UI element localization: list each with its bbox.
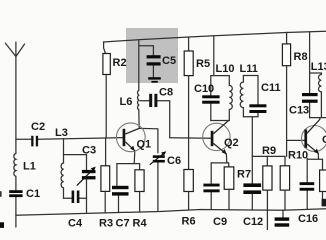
wire: C5 to ground symbol [152,66,154,78]
resistor R4 [135,170,144,192]
svg-text:C2: C2 [31,121,45,133]
resistor R9 [263,166,272,190]
wire: R8 top lead [286,32,288,44]
wire: C13 bottom lead [309,103,311,118]
wire: C10 lower lead [210,103,212,120]
wire: emitter to node [225,154,227,163]
svg-text:C12: C12 [243,216,263,228]
svg-text:R4: R4 [133,218,148,230]
svg-text:R5: R5 [196,58,210,70]
wire: tank2 descent to mid junction [251,117,253,157]
inductor L11 [240,76,243,117]
wire: Q1 emitter down [133,151,136,164]
wire: L13 bottom lead [320,92,322,118]
wire: C7 upper lead [116,164,118,187]
capacitor C11 [249,104,266,113]
wire: antenna node to C2 [16,138,31,140]
transistor Q3 [302,118,326,154]
svg-text:C8: C8 [159,87,173,99]
wire: R5 top lead [188,37,190,51]
capacitor below ground rail (cut) [275,217,290,226]
resistor R8 [282,44,290,66]
svg-text:R10: R10 [288,150,308,162]
wire: L3 tank top [64,154,87,156]
svg-text:R7: R7 [237,169,251,181]
svg-text:R8: R8 [294,51,308,63]
resistor R11 (cut at right edge) [320,170,326,192]
wire: C4 to right branch [79,197,87,199]
wire: C12 lower lead [251,193,253,210]
svg-text:Q2: Q2 [224,137,239,149]
wire: C13 node to Q3 collector [310,117,326,119]
svg-text:C9: C9 [213,216,227,228]
wire: tank1 bottom [211,120,230,122]
resistor R5 [184,51,193,76]
wire: R9 bottom lead through rail to bottom edge [266,190,268,230]
capacitor C12 [243,183,261,194]
wire: C16 upper lead [306,158,308,183]
inductor L6 [138,90,139,110]
wire: C5 branch stub [139,46,154,56]
svg-text:C10: C10 [194,83,214,95]
dark component blob at right edge above rail [322,199,326,207]
capacitor C16 [300,182,315,191]
svg-text:R2: R2 [113,57,127,69]
wire: C9 lower lead [210,192,212,209]
wire: R8 bottom down to Q3 base node [286,66,288,157]
wire: C11 lower lead [257,112,259,117]
wire: Q2 base wire [170,137,211,140]
svg-text:L1: L1 [23,161,36,173]
cut-off component at bottom-left edge [0,222,4,228]
wire: R2 bottom to base node [105,75,107,139]
wire: bottom ground rail [16,209,326,215]
resistor R3 [101,166,110,192]
capacitor C6 (variable) [150,151,167,164]
wire: C12 upper lead [251,156,253,184]
wire: Q3 base wire [287,139,305,141]
capacitor C2 [31,136,38,147]
wire: below-rail capacitor top lead [282,210,284,219]
capacitor C1 [9,190,22,197]
wire: R4 bottom lead [139,192,141,213]
wire: R9 top lead [266,156,268,166]
inductor L10 [229,76,232,121]
wire: C11 upper lead [257,76,259,105]
wire: C3 branch upper [86,155,88,171]
transistor Q1 [116,123,145,152]
wire: L6 tap to C8 [140,100,149,102]
wire: R10 bottom lead [284,190,286,210]
wire: L6 feed from rail [138,40,140,90]
svg-text:L6: L6 [120,96,133,108]
wire: R11 top lead (cut at edge) [322,159,324,170]
wire: C3 branch lower, down to ground rail [86,179,88,212]
wire: Q1 emitter node run [117,163,140,165]
capacitor C3 (variable) [77,167,96,186]
capacitor C9 [203,184,219,193]
wire: Q3 emitter drop [317,154,319,160]
wire: tank2 bottom [243,116,258,118]
wire: C13 stub from rail [309,32,311,93]
wire: C9 upper lead [210,163,212,184]
svg-text:C5: C5 [162,55,176,67]
wire: Q3 emitter node run [307,158,322,160]
wire: R6 to ground rail [188,192,190,210]
wire: R5 bottom through base node to R6 [188,76,190,170]
wire: antenna lead down [15,57,17,154]
inductor L13 [318,75,321,92]
wire: tank1 top [211,75,230,77]
wire: tank2 top [243,75,258,77]
wire: mid junction horizontal [252,155,285,157]
antenna [5,42,24,57]
wire: C8 right lead down to Q2 base wire [157,101,169,138]
shaded region (gray highlight box around C5) [126,28,178,83]
inductor L3 [61,155,63,199]
svg-text:C1: C1 [26,188,40,200]
capacitor C8 [149,94,157,107]
wire: Q2 emitter node [211,162,228,164]
wire: R4 top lead [139,164,141,170]
svg-text:L11: L11 [240,63,258,75]
wire: R11 bottom lead [322,192,324,200]
svg-text:C16: C16 [298,213,318,225]
svg-text:Q1: Q1 [137,139,152,151]
svg-text:R9: R9 [262,145,276,157]
svg-text:L13: L13 [311,61,326,73]
svg-text:L10: L10 [216,63,235,75]
inductor L1 [14,154,16,177]
wire: R10 top lead [284,156,286,165]
capacitor C7 [112,186,129,196]
svg-text:C1: C1 [322,134,326,146]
svg-text:C11: C11 [261,82,281,94]
svg-text:C7: C7 [116,218,130,230]
wire: L1 to C1 [15,176,17,190]
capacitor C4 [72,191,80,204]
capacitor C13 [302,93,318,103]
capacitor C5 [147,55,161,65]
svg-text:C6: C6 [167,155,181,167]
wire: R7 top lead [228,163,230,167]
wire: tank1 stub from rail [213,36,215,76]
resistor R2 [103,54,110,75]
svg-text:R6: R6 [182,216,196,228]
wire: R3 to ground rail [104,191,106,212]
wire: R2 top lead [104,42,106,54]
wire: L13 branch top [310,73,322,75]
svg-text:R3: R3 [99,218,113,230]
svg-text:L3: L3 [55,127,68,139]
wire: C16 lower lead [306,191,308,210]
wire: Q1 collector node to C6 [139,128,158,152]
wire: L6 to Q1 collector junction [138,110,140,128]
resistor R6 [184,170,193,192]
svg-text:C4: C4 [68,218,83,230]
wire: C7 lower lead [118,195,120,213]
ground (below C5) [148,77,161,83]
capacitor C10 [202,95,219,103]
wire: stub to L3 tank [63,139,65,155]
wire: C6 bottom to ground rail [157,162,159,210]
svg-text:C13: C13 [289,105,309,117]
wire: C10 upper lead [210,76,212,96]
wire: top supply rail [103,31,326,42]
wire: C1 to ground rail and below [15,197,17,228]
resistor R10 [280,166,289,190]
wire: C2 to Q1 base [38,138,123,140]
svg-text:C3: C3 [82,145,96,157]
transistor Q2 [203,121,230,155]
wire: tank bottom run to C4 [64,197,72,199]
wire: base node down to R3 [105,138,107,166]
cut-off mark at left edge [0,191,2,197]
resistor R7 [224,167,234,189]
wire: R7 bottom lead [228,189,230,209]
